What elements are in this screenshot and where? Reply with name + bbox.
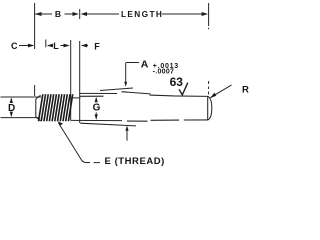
svg-text:L: L (53, 41, 59, 51)
D bottom extension line (1, 117, 41, 119)
arrowhead A down (124, 82, 127, 87)
svg-text:A: A (141, 59, 149, 71)
dimension line LENGTH (82, 13, 207, 15)
arrowhead A up (125, 126, 128, 131)
dimension line B (35, 13, 78, 15)
arrowhead F (81, 44, 87, 48)
arrowhead C (28, 44, 34, 48)
arrowhead B left (35, 12, 42, 16)
pin bottom chamfer (36, 117, 41, 121)
arrowhead G up (95, 97, 98, 103)
leader A (126, 63, 139, 83)
G dimension (95, 99, 97, 117)
arrowhead L right (64, 44, 70, 48)
svg-text:63: 63 (170, 75, 184, 89)
svg-text:E (THREAD): E (THREAD) (105, 156, 165, 167)
pin top break line (100, 88, 133, 91)
D dimension (1, 97, 42, 118)
leader R (211, 85, 232, 98)
svg-text:B: B (55, 9, 61, 19)
pin top chamfer (36, 95, 41, 99)
arrowhead D up (10, 97, 13, 103)
extension stub (x=45.8) (45, 40, 47, 48)
extension line left end (x=34.6) (34, 3, 36, 96)
D arrow stems (10, 99, 12, 116)
pin rounded end cap (208, 96, 212, 120)
surface finish checkmark (179, 83, 188, 95)
dimension line F (82, 45, 88, 47)
arrowhead G down (95, 114, 98, 120)
extension line right end dashed (x=209.3) (208, 3, 210, 95)
leader E thread (59, 123, 101, 163)
arrowhead LENGTH right (202, 12, 208, 16)
pin left end face (35, 99, 37, 117)
pin taper bottom edge right (127, 120, 208, 121)
pin taper bottom edge left (80, 123, 136, 126)
svg-text:G: G (93, 103, 101, 114)
extension line taper-start (x=79.7) (79, 9, 81, 123)
thread hatch (39, 94, 73, 121)
svg-text:LENGTH: LENGTH (121, 9, 163, 19)
pin taper top edge right (122, 92, 208, 97)
arrowhead B right (73, 12, 79, 16)
pin neck top edge / G extension (71, 96, 104, 98)
pin taper top edge left (80, 92, 117, 94)
arrowhead R (210, 93, 216, 99)
pin neck bottom edge / G extension (71, 119, 122, 121)
arrowhead LENGTH left (81, 12, 87, 16)
arrowhead L left (47, 44, 53, 48)
extension line thread-end (x=70.7) (70, 40, 72, 120)
arrowhead D down (10, 112, 13, 118)
svg-text:C: C (11, 41, 18, 51)
svg-text:F: F (94, 41, 100, 51)
leader A lower arrow stem (126, 130, 128, 141)
dimension line C (19, 45, 33, 47)
svg-text:R: R (242, 84, 249, 95)
D top extension line (1, 96, 42, 98)
dimension line L (48, 45, 69, 47)
arrowhead E leader (58, 121, 63, 125)
